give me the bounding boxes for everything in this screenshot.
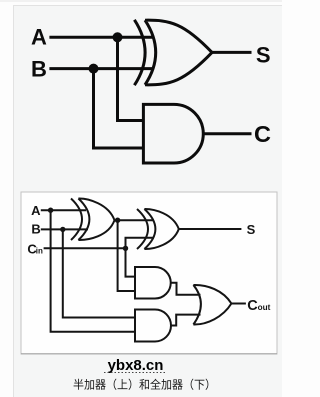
node junction B (full adder) <box>60 227 65 232</box>
caption 半加器（上）和全加器（下） <box>74 379 209 390</box>
or-gate OR1 input arc <box>193 285 201 325</box>
svg-text:out: out <box>258 303 271 312</box>
svg-text:A: A <box>31 203 41 218</box>
wire A branch to AND <box>118 37 144 120</box>
svg-text:C: C <box>254 121 271 147</box>
wire A input <box>41 209 86 211</box>
node junction A (full adder) <box>48 208 53 213</box>
xor-gate XOR2 input arc <box>137 209 148 249</box>
wire AND1 out to OR <box>171 283 201 295</box>
node junction XOR1 output <box>115 218 120 223</box>
image frame <box>21 192 277 354</box>
xor-gate XOR1 input arc <box>71 199 82 241</box>
xor-gate XOR2 body <box>144 209 178 249</box>
wire B input <box>41 228 88 230</box>
wire A branch to AND2 <box>51 210 136 332</box>
wire S output <box>179 228 242 230</box>
wire Cin branch to XOR2 and AND1 <box>126 238 155 277</box>
wire A input <box>49 36 153 39</box>
wire XOR1 out to XOR2 <box>114 219 154 221</box>
wire C output <box>203 132 251 135</box>
and-gate AND1 <box>135 267 171 299</box>
xor-gate XOR1 input arc <box>134 20 145 85</box>
node junction Cin <box>123 246 128 251</box>
wire B branch to AND2 <box>63 229 136 317</box>
wire XOR1 out branch to AND1 <box>118 220 136 291</box>
svg-text:B: B <box>31 57 47 82</box>
wire Cout output <box>231 303 246 305</box>
wire B branch to AND <box>94 69 144 148</box>
svg-text:S: S <box>247 222 256 237</box>
or-gate OR1 body <box>193 285 231 325</box>
node junction B <box>89 64 99 74</box>
watermark dotted underline <box>104 372 167 374</box>
node junction A <box>113 32 123 42</box>
svg-text:in: in <box>36 246 43 255</box>
wire B input <box>49 67 153 70</box>
wire S output <box>211 51 252 54</box>
svg-text:ybx8.cn: ybx8.cn <box>108 357 164 374</box>
xor-gate XOR1 body <box>78 198 114 240</box>
svg-text:B: B <box>31 222 40 237</box>
svg-text:A: A <box>31 24 47 49</box>
and-gate AND2 <box>135 310 171 342</box>
xor-gate XOR1 body <box>145 20 212 85</box>
svg-text:S: S <box>256 43 271 68</box>
wire Cin input <box>44 247 126 249</box>
wire AND2 out to OR <box>171 315 201 326</box>
and-gate AND1 <box>143 104 203 163</box>
